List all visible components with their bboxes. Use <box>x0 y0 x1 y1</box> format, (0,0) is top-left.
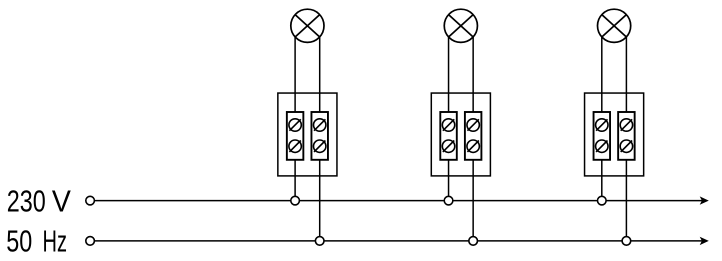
node E3 junction on N line <box>622 237 631 246</box>
wire E2 right lead upper <box>472 37 474 112</box>
wire E2 left lead lower to L <box>448 160 450 201</box>
terminal N input <box>86 237 95 246</box>
wire E2 left lead upper <box>448 37 450 112</box>
svg-text:V: V <box>52 184 71 219</box>
node E3 junction on L line <box>598 196 607 205</box>
terminal block X1 left upper screw <box>289 119 301 131</box>
node E1 junction on L line <box>291 196 300 205</box>
wire E1 left lead lower to L <box>294 160 296 201</box>
lamp E3 <box>598 9 631 42</box>
terminal block X2 left upper screw <box>442 119 454 131</box>
terminal block X1 right upper screw <box>314 119 326 131</box>
wire E3 right lead upper <box>625 37 627 112</box>
arrow N line continuation <box>700 237 709 245</box>
terminal block X3 right upper screw <box>620 119 632 131</box>
wire E1 left lead upper <box>294 37 296 112</box>
node E1 junction on N line <box>315 237 324 246</box>
arrow L line continuation <box>700 196 709 204</box>
wire E2 right lead lower to N <box>472 160 474 241</box>
wire L line 230V supply <box>95 200 703 202</box>
terminal block X2 left terminal body <box>440 112 457 160</box>
terminal block X2 right lower screw <box>467 140 479 152</box>
lamp E2 <box>444 9 477 42</box>
lamp E1 <box>291 9 324 42</box>
label 50 Hz <box>6 224 67 259</box>
wire E3 right lead lower to N <box>625 160 627 241</box>
svg-text:50: 50 <box>6 224 32 259</box>
terminal block X3 left upper screw <box>596 119 608 131</box>
terminal block X2 left lower screw <box>442 140 454 152</box>
wire E1 right lead upper <box>319 37 321 112</box>
node E2 junction on N line <box>469 237 478 246</box>
wire N line 50Hz supply <box>95 240 703 242</box>
terminal block X1 right terminal body <box>311 112 328 160</box>
terminal block X2 right upper screw <box>467 119 479 131</box>
wire E3 left lead lower to L <box>601 160 603 201</box>
label 230 V <box>7 184 71 219</box>
terminal block X1 left terminal body <box>287 112 304 160</box>
terminal block X3 right lower screw <box>620 140 632 152</box>
svg-text:230: 230 <box>7 184 46 219</box>
terminal block X3 left lower screw <box>596 140 608 152</box>
terminal block X1 outer box <box>278 93 337 176</box>
terminal block X2 outer box <box>431 93 490 176</box>
node E2 junction on L line <box>444 196 453 205</box>
terminal L input <box>86 196 95 205</box>
svg-text:Hz: Hz <box>43 224 68 259</box>
wire E3 left lead upper <box>601 37 603 112</box>
wire E1 right lead lower to N <box>319 160 321 241</box>
terminal block X1 right lower screw <box>314 140 326 152</box>
terminal block X1 left lower screw <box>289 140 301 152</box>
terminal block X3 outer box <box>585 93 644 176</box>
terminal block X3 left terminal body <box>594 112 611 160</box>
terminal block X3 right terminal body <box>618 112 635 160</box>
terminal block X2 right terminal body <box>465 112 482 160</box>
